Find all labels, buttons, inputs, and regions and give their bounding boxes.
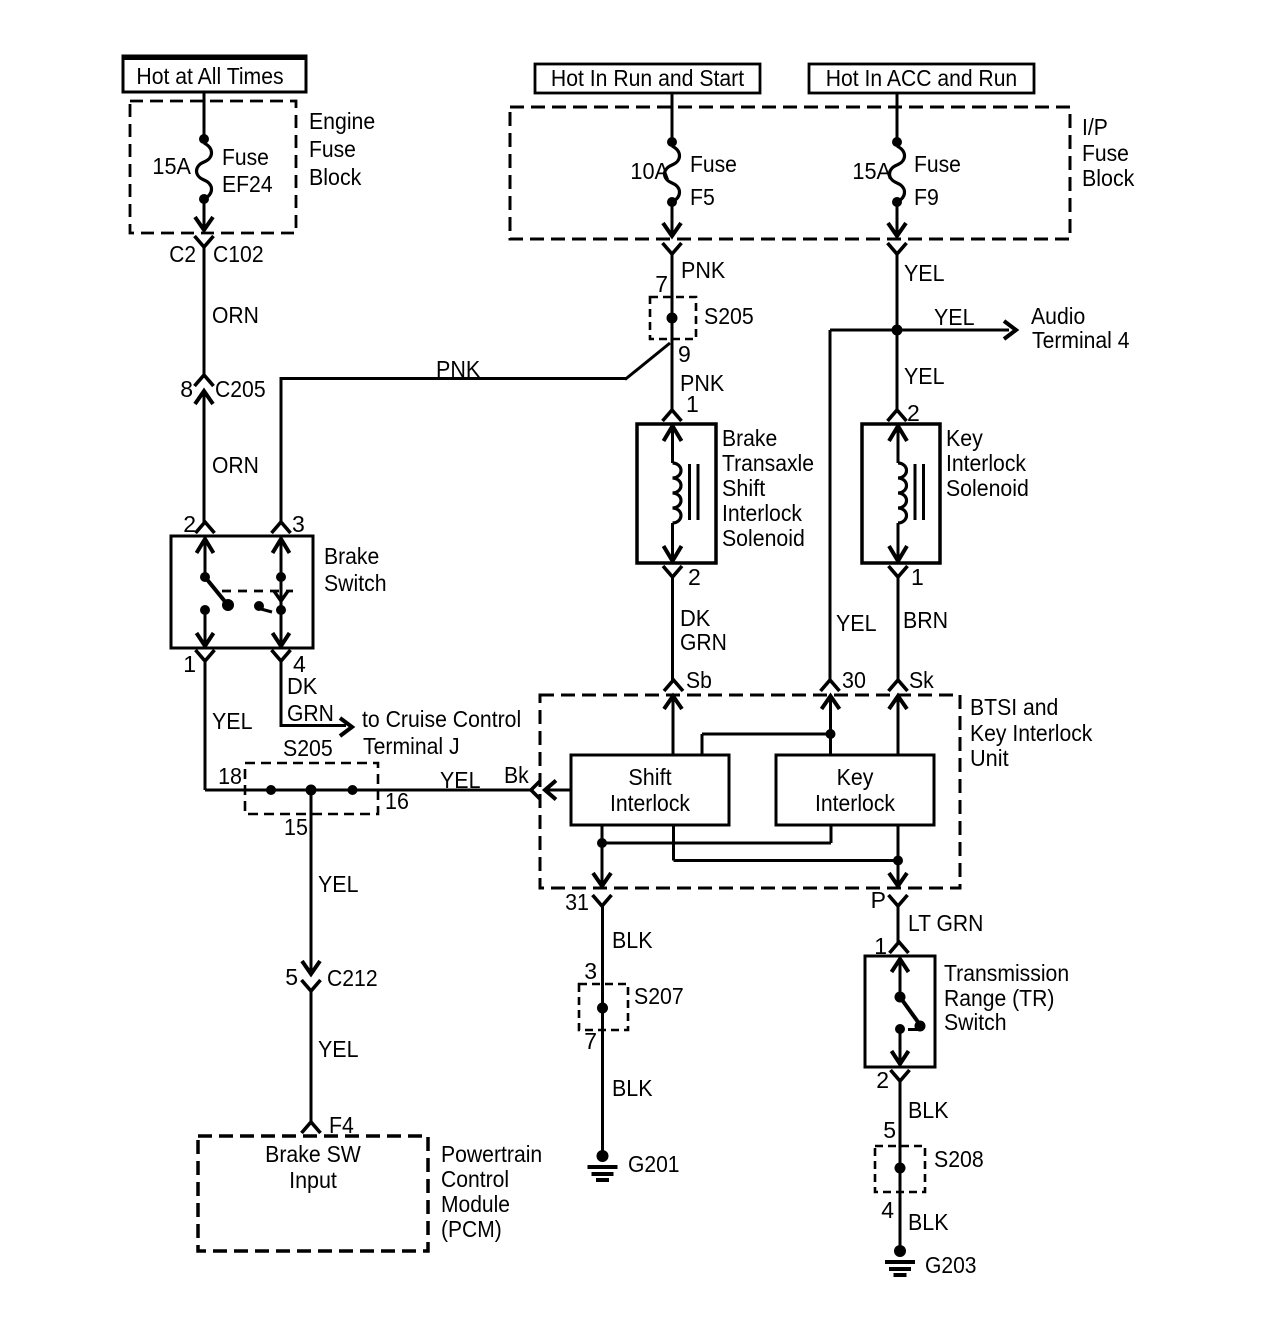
- svg-text:31: 31: [565, 889, 589, 915]
- svg-text:15: 15: [284, 814, 308, 840]
- svg-text:16: 16: [385, 788, 409, 814]
- svg-text:Interlock: Interlock: [815, 790, 895, 816]
- svg-text:10A: 10A: [630, 158, 669, 184]
- svg-text:to Cruise Control: to Cruise Control: [362, 706, 521, 732]
- svg-text:F5: F5: [690, 184, 715, 210]
- svg-text:Transaxle: Transaxle: [722, 450, 814, 476]
- svg-text:DK: DK: [287, 673, 318, 699]
- svg-text:BTSI and: BTSI and: [970, 694, 1058, 720]
- svg-text:Fuse: Fuse: [222, 144, 269, 170]
- svg-text:Powertrain: Powertrain: [441, 1141, 542, 1167]
- svg-text:Shift: Shift: [628, 764, 672, 790]
- svg-text:2: 2: [688, 564, 701, 590]
- svg-text:ORN: ORN: [212, 452, 259, 478]
- svg-text:1: 1: [686, 391, 699, 417]
- svg-text:DK: DK: [680, 605, 711, 631]
- svg-text:Engine: Engine: [309, 108, 375, 134]
- svg-text:Fuse: Fuse: [690, 151, 737, 177]
- svg-text:LT GRN: LT GRN: [908, 910, 983, 936]
- svg-text:C2: C2: [169, 241, 196, 267]
- svg-text:Range (TR): Range (TR): [944, 985, 1054, 1011]
- svg-text:Sb: Sb: [686, 667, 712, 693]
- svg-text:Shift: Shift: [722, 475, 766, 501]
- svg-text:Switch: Switch: [324, 570, 387, 596]
- svg-text:S207: S207: [634, 983, 684, 1009]
- svg-text:F9: F9: [914, 184, 939, 210]
- svg-text:YEL: YEL: [318, 871, 359, 897]
- svg-text:8: 8: [180, 376, 193, 402]
- svg-text:Interlock: Interlock: [610, 790, 690, 816]
- svg-text:7: 7: [584, 1028, 597, 1054]
- svg-text:YEL: YEL: [904, 260, 945, 286]
- svg-text:GRN: GRN: [287, 700, 334, 726]
- svg-text:7: 7: [655, 271, 668, 297]
- svg-text:Fuse: Fuse: [309, 136, 356, 162]
- svg-text:Terminal J: Terminal J: [363, 733, 460, 759]
- svg-text:Block: Block: [309, 164, 362, 190]
- svg-text:Terminal 4: Terminal 4: [1032, 327, 1130, 353]
- svg-text:Module: Module: [441, 1191, 510, 1217]
- svg-text:Switch: Switch: [944, 1009, 1007, 1035]
- svg-text:4: 4: [881, 1197, 894, 1223]
- svg-text:S208: S208: [934, 1146, 984, 1172]
- svg-text:Control: Control: [441, 1166, 509, 1192]
- svg-text:ORN: ORN: [212, 302, 259, 328]
- svg-text:BLK: BLK: [908, 1097, 949, 1123]
- svg-text:EF24: EF24: [222, 171, 273, 197]
- svg-text:I/P: I/P: [1082, 114, 1108, 140]
- svg-text:YEL: YEL: [212, 708, 253, 734]
- svg-text:Bk: Bk: [504, 762, 529, 788]
- svg-text:Brake: Brake: [722, 425, 777, 451]
- svg-text:GRN: GRN: [680, 629, 727, 655]
- svg-text:BLK: BLK: [612, 1075, 653, 1101]
- svg-text:C102: C102: [213, 241, 264, 267]
- svg-text:YEL: YEL: [934, 304, 975, 330]
- svg-text:Block: Block: [1082, 165, 1135, 191]
- svg-text:P: P: [871, 887, 886, 913]
- svg-text:F4: F4: [329, 1112, 354, 1138]
- svg-text:PNK: PNK: [681, 257, 726, 283]
- svg-text:Transmission: Transmission: [944, 960, 1069, 986]
- svg-text:YEL: YEL: [318, 1036, 359, 1062]
- svg-text:Interlock: Interlock: [722, 500, 802, 526]
- svg-text:Sk: Sk: [909, 667, 934, 693]
- svg-text:18: 18: [218, 763, 242, 789]
- svg-text:15A: 15A: [152, 153, 191, 179]
- svg-text:2: 2: [183, 511, 196, 537]
- svg-text:S205: S205: [704, 303, 754, 329]
- svg-text:BLK: BLK: [612, 927, 653, 953]
- svg-text:C212: C212: [327, 965, 378, 991]
- svg-text:5: 5: [285, 964, 298, 990]
- svg-text:Fuse: Fuse: [1082, 140, 1129, 166]
- svg-text:YEL: YEL: [904, 363, 945, 389]
- svg-text:BLK: BLK: [908, 1209, 949, 1235]
- svg-text:15A: 15A: [852, 158, 891, 184]
- svg-text:2: 2: [907, 400, 920, 426]
- svg-text:Unit: Unit: [970, 745, 1009, 771]
- svg-text:3: 3: [584, 958, 597, 984]
- svg-text:C205: C205: [215, 376, 266, 402]
- svg-text:PNK: PNK: [436, 356, 481, 382]
- svg-text:Key: Key: [946, 425, 983, 451]
- svg-text:(PCM): (PCM): [441, 1216, 502, 1242]
- svg-text:Audio: Audio: [1031, 303, 1085, 329]
- svg-text:Brake SW: Brake SW: [265, 1141, 361, 1167]
- svg-text:1: 1: [183, 651, 196, 677]
- svg-text:30: 30: [842, 667, 866, 693]
- svg-text:Solenoid: Solenoid: [722, 525, 805, 551]
- svg-text:Brake: Brake: [324, 543, 379, 569]
- svg-text:1: 1: [911, 564, 924, 590]
- svg-text:Hot In Run and Start: Hot In Run and Start: [551, 65, 745, 91]
- svg-text:9: 9: [678, 341, 691, 367]
- svg-text:Key: Key: [837, 764, 874, 790]
- svg-text:YEL: YEL: [440, 767, 481, 793]
- svg-text:Interlock: Interlock: [946, 450, 1026, 476]
- svg-text:5: 5: [883, 1117, 896, 1143]
- svg-text:Fuse: Fuse: [914, 151, 961, 177]
- svg-text:G201: G201: [628, 1151, 680, 1177]
- svg-text:G203: G203: [925, 1252, 977, 1278]
- svg-text:S205: S205: [283, 735, 333, 761]
- svg-text:BRN: BRN: [903, 607, 948, 633]
- svg-text:Hot at All Times: Hot at All Times: [136, 63, 283, 89]
- svg-text:Solenoid: Solenoid: [946, 475, 1029, 501]
- svg-text:Input: Input: [289, 1167, 337, 1193]
- svg-text:2: 2: [876, 1067, 889, 1093]
- svg-text:YEL: YEL: [836, 610, 877, 636]
- svg-text:Hot In ACC and Run: Hot In ACC and Run: [826, 65, 1017, 91]
- svg-text:3: 3: [292, 511, 305, 537]
- svg-text:Key Interlock: Key Interlock: [970, 720, 1093, 746]
